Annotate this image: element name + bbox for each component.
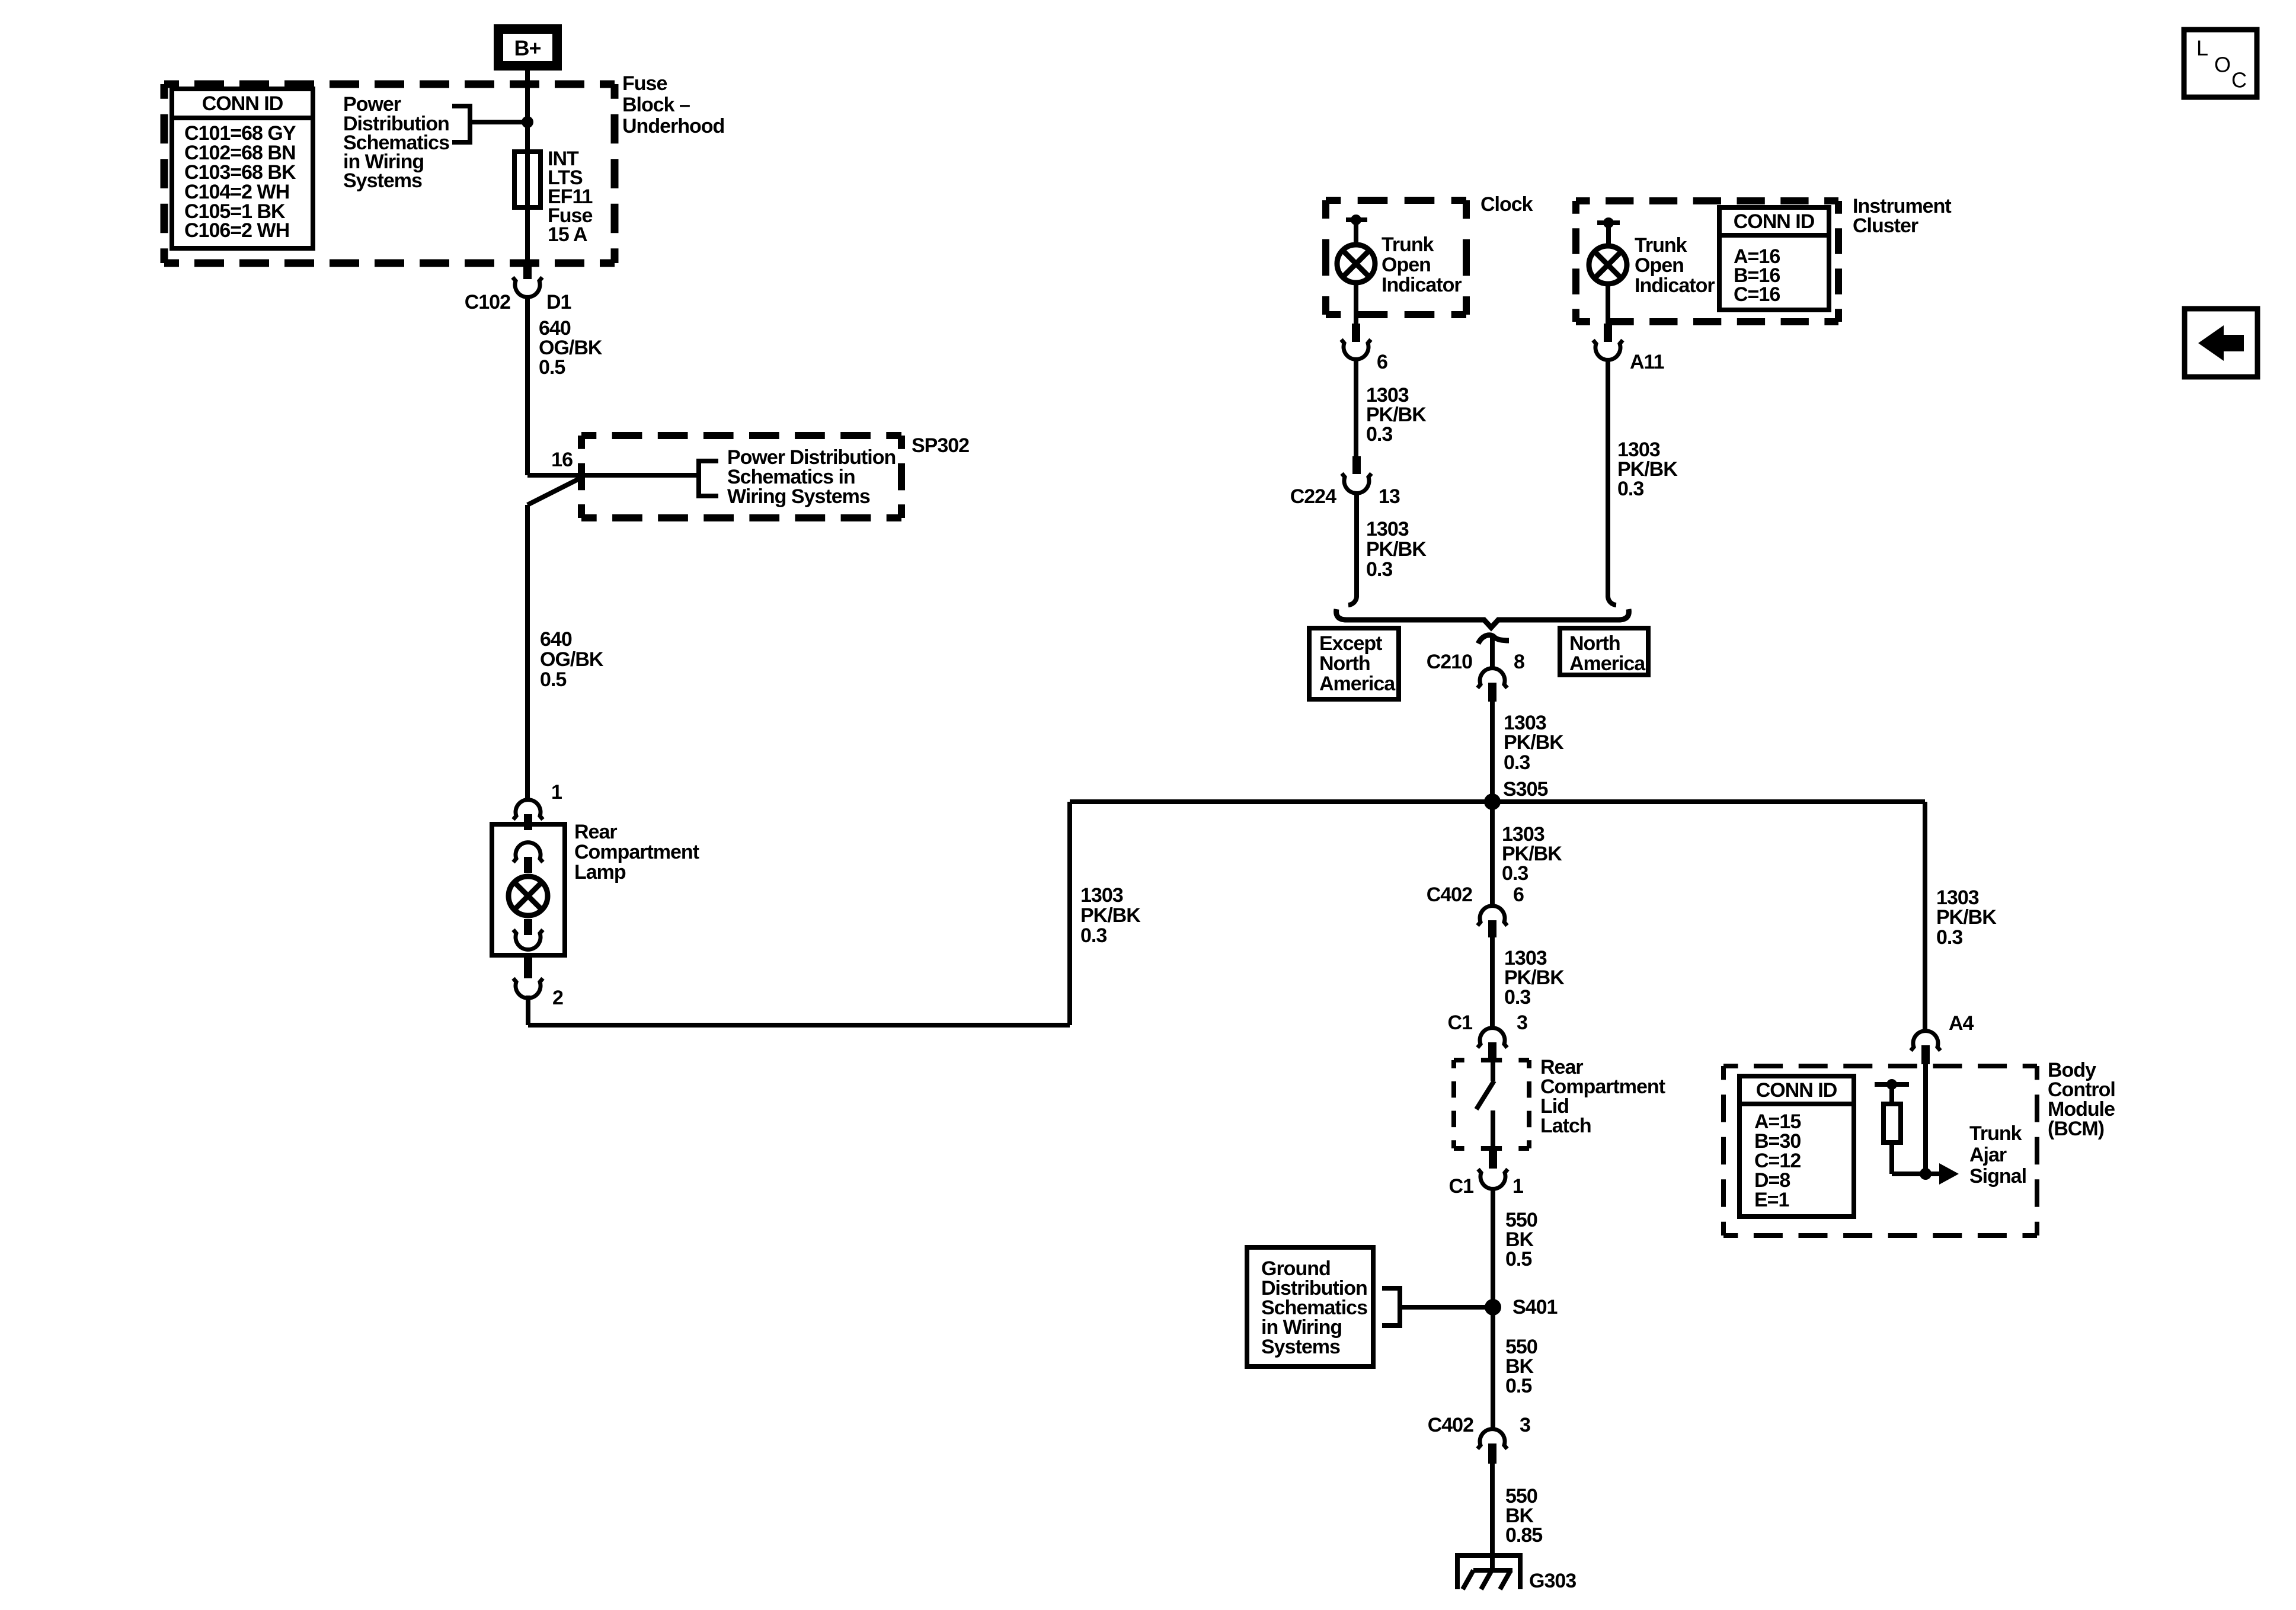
svg-text:Ajar: Ajar (1969, 1144, 2007, 1166)
svg-text:0.3: 0.3 (1504, 751, 1530, 774)
CONN ID table (fuse block) (172, 89, 313, 248)
junction node on B+ feed (522, 116, 533, 128)
splice S401 (1485, 1296, 1557, 1318)
trunk ajar signal node and arrow (1920, 1163, 1959, 1185)
svg-text:3: 3 (1520, 1414, 1530, 1436)
svg-text:0.85: 0.85 (1505, 1524, 1542, 1547)
trunk open indicator label (cluster) (1635, 234, 1715, 297)
LOC badge (2184, 30, 2257, 97)
fuse block - underhood dashed box (164, 84, 615, 263)
svg-text:Block –: Block – (622, 94, 690, 116)
connector C402 pin 3 (1428, 1414, 1530, 1464)
svg-text:Rear: Rear (574, 821, 617, 843)
svg-text:CONN ID: CONN ID (1734, 210, 1815, 233)
wire label 1303 PK/BK 0.3 (clock) (1366, 384, 1427, 446)
svg-text:Clock: Clock (1480, 193, 1533, 216)
trunk open indicator bulb (cluster) (1589, 246, 1627, 284)
svg-text:America: America (1569, 652, 1646, 675)
svg-text:6: 6 (1513, 884, 1524, 906)
wire clock to C224 (1303 PK/BK) (1354, 358, 1358, 456)
svg-text:Systems: Systems (343, 169, 422, 192)
connector pin 1 of rear compartment lamp (513, 781, 562, 830)
svg-text:0.3: 0.3 (1366, 558, 1392, 581)
svg-text:North: North (1319, 652, 1370, 675)
bracket to SP302 note (699, 461, 718, 496)
svg-text:C402: C402 (1427, 884, 1472, 906)
svg-text:1303: 1303 (1366, 518, 1409, 540)
trunk open indicator label (clock) (1382, 233, 1462, 296)
latch switch (1476, 1060, 1494, 1148)
clock label (1480, 193, 1533, 216)
svg-text:Underhood: Underhood (622, 115, 724, 137)
svg-text:(BCM): (BCM) (2048, 1118, 2104, 1140)
rear compartment lid latch dashed box (1454, 1060, 1529, 1148)
svg-text:PK/BK: PK/BK (1366, 538, 1427, 561)
svg-text:8: 8 (1514, 651, 1524, 673)
svg-text:0.5: 0.5 (540, 668, 566, 691)
wire label 640 OG/BK 0.5 (lower) (540, 628, 604, 691)
connector C224 pin 13 (1290, 456, 1400, 508)
wire label 550 BK 0.85 (1505, 1485, 1542, 1547)
wire 640 OG/BK lower segment (525, 505, 530, 800)
svg-text:B+: B+ (514, 36, 541, 60)
connector C102 pin D1 (465, 263, 571, 313)
wire label 550 BK 0.5 (below S401) (1505, 1336, 1537, 1397)
lamp bulb (509, 876, 548, 916)
svg-text:C1: C1 (1448, 1012, 1473, 1034)
svg-text:15 A: 15 A (548, 223, 587, 246)
svg-text:0.5: 0.5 (1505, 1375, 1531, 1397)
svg-text:G303: G303 (1529, 1570, 1576, 1592)
north america box (1560, 628, 1648, 675)
instrument cluster dashed box (1576, 201, 1838, 322)
svg-text:Cluster: Cluster (1853, 215, 1918, 237)
svg-text:C210: C210 (1427, 651, 1472, 673)
rear compartment lamp box (492, 824, 565, 955)
rear compartment lid latch label (1540, 1056, 1665, 1137)
connector pin 2 of rear compartment lamp (513, 955, 563, 1009)
power distribution schematics note (fuse block) (343, 93, 449, 192)
wire diagonal at SP302 (527, 478, 581, 505)
svg-text:CONN ID: CONN ID (1756, 1079, 1837, 1102)
wire label 1303 PK/BK 0.3 (right branch) (1936, 886, 1997, 949)
svg-text:Fuse: Fuse (622, 72, 667, 95)
svg-text:1303: 1303 (1080, 884, 1123, 907)
except north america box (1309, 628, 1399, 699)
wire bulb to clock pin 6 (1354, 283, 1358, 324)
svg-text:2: 2 (552, 987, 563, 1009)
option merge brace (1336, 609, 1629, 628)
fuse INT LTS EF11 15A (514, 152, 541, 263)
connector C402 pin 6 (1427, 884, 1524, 937)
clock dashed box (1326, 200, 1466, 315)
svg-text:Indicator: Indicator (1382, 274, 1462, 296)
splice SP302 dashed box (581, 436, 901, 518)
svg-text:North: North (1569, 632, 1620, 655)
svg-text:C: C (2231, 68, 2247, 92)
wire label 550 BK 0.5 (above S401) (1505, 1209, 1537, 1270)
svg-text:Indicator: Indicator (1635, 274, 1715, 297)
svg-text:Lamp: Lamp (574, 861, 626, 884)
trunk open indicator bulb (clock) (1337, 245, 1375, 283)
wire S305 to C402 pin 6 (1490, 802, 1495, 906)
body control module label (2048, 1059, 2115, 1140)
svg-text:Trunk: Trunk (1969, 1122, 2022, 1145)
svg-text:OG/BK: OG/BK (540, 648, 604, 671)
svg-text:PK/BK: PK/BK (1080, 904, 1141, 927)
pin 16 label at SP302 (551, 449, 573, 471)
svg-text:640: 640 (540, 628, 572, 651)
lamp internal bottom terminal (513, 919, 543, 949)
svg-text:America: America (1319, 673, 1396, 695)
trunk ajar signal label (1969, 1122, 2026, 1188)
svg-text:13: 13 (1379, 485, 1400, 508)
fuse block label (622, 72, 724, 137)
wire C210 to S305 (1490, 702, 1495, 802)
svg-text:Open: Open (1635, 254, 1684, 277)
rear compartment lamp label (574, 821, 699, 884)
svg-text:O: O (2214, 53, 2231, 77)
svg-text:Trunk: Trunk (1382, 233, 1434, 256)
wire C402 to C1 (1303 PK/BK) (1490, 937, 1495, 1028)
svg-text:Except: Except (1319, 632, 1382, 655)
svg-text:C=16: C=16 (1734, 283, 1780, 306)
svg-text:Open: Open (1382, 254, 1431, 276)
wire label 1303 PK/BK 0.3 (left branch) (1080, 884, 1141, 947)
wire bulb to cluster pin A11 (1606, 284, 1610, 324)
svg-text:C224: C224 (1290, 485, 1336, 508)
cluster internal supply tap (1597, 217, 1620, 247)
svg-text:1: 1 (551, 781, 562, 804)
wire label 1303 PK/BK 0.3 (below S305) (1502, 823, 1562, 885)
svg-text:C402: C402 (1428, 1414, 1473, 1436)
CONN ID table (BCM) (1739, 1076, 1854, 1217)
svg-text:0.3: 0.3 (1504, 986, 1530, 1009)
svg-text:E=1: E=1 (1754, 1189, 1789, 1211)
wire A4 into BCM (1923, 1064, 1928, 1174)
power symbol B+ (battery feed) (498, 29, 557, 66)
wire S305 to BCM pin A4 (1923, 802, 1927, 1031)
wire B+ to fuse (525, 71, 530, 154)
svg-text:PK/BK: PK/BK (1936, 906, 1997, 929)
svg-text:Compartment: Compartment (574, 841, 699, 863)
connector pin 6 (clock) (1341, 324, 1387, 373)
power distribution schematics note (SP302) (727, 446, 896, 508)
svg-text:Trunk: Trunk (1635, 234, 1687, 257)
connector pin A11 (cluster) (1593, 324, 1664, 373)
svg-text:3: 3 (1517, 1012, 1527, 1034)
connector pin A4 (BCM) (1911, 1012, 1974, 1064)
wire label 1303 PK/BK 0.3 (cluster) (1617, 438, 1678, 500)
svg-text:L: L (2196, 36, 2208, 60)
connector C1 pin 3 (latch) (1448, 1012, 1527, 1060)
svg-text:SP302: SP302 (912, 434, 969, 457)
wire label 1303 PK/BK 0.3 (above latch) (1504, 947, 1565, 1009)
ground G303 (1455, 1555, 1576, 1592)
svg-text:C102: C102 (465, 291, 510, 313)
svg-text:0.3: 0.3 (1080, 924, 1107, 947)
svg-text:Signal: Signal (1969, 1165, 2026, 1188)
wire label 1303 PK/BK 0.3 (above S305) (1504, 712, 1564, 774)
connector C1 pin 1 (latch) (1449, 1148, 1523, 1198)
svg-text:0.3: 0.3 (1502, 862, 1528, 885)
svg-text:CONN ID: CONN ID (202, 92, 283, 115)
wire lamp to riser (1303 PK/BK) (528, 802, 1070, 1025)
svg-text:0.3: 0.3 (1936, 926, 1962, 949)
svg-text:Wiring Systems: Wiring Systems (727, 485, 870, 508)
svg-text:PK/BK: PK/BK (1504, 731, 1564, 754)
svg-text:0.5: 0.5 (539, 356, 565, 379)
back arrow badge (2185, 309, 2257, 377)
body control module dashed box (1723, 1066, 2037, 1235)
connector C210 pin 8 (1427, 635, 1524, 702)
svg-text:Latch: Latch (1540, 1115, 1591, 1137)
lamp internal top terminal (513, 843, 543, 873)
wire label 640 OG/BK 0.5 (upper) (539, 317, 603, 379)
svg-text:16: 16 (551, 449, 573, 471)
wire cluster to option brace (1303 PK/BK) (1608, 359, 1616, 605)
svg-text:C1: C1 (1449, 1175, 1474, 1198)
wire C402 to ground (550 BK) (1490, 1464, 1495, 1569)
wire 640 OG/BK upper segment (525, 296, 530, 475)
splice SP302 tap wire (527, 473, 699, 478)
SP302 designator (912, 434, 969, 457)
ground distribution note box (1247, 1247, 1373, 1366)
svg-text:A11: A11 (1630, 351, 1664, 373)
CONN ID table (instrument cluster) (1719, 207, 1829, 310)
wire C224 to option brace (1348, 493, 1357, 605)
svg-text:S305: S305 (1503, 778, 1547, 801)
splice S305 (1070, 778, 1925, 810)
fuse label (548, 148, 592, 246)
svg-text:S401: S401 (1512, 1296, 1557, 1318)
wire label 1303 PK/BK 0.3 (below C224) (1366, 518, 1427, 581)
bracket from note to wire (452, 106, 527, 142)
clock internal supply tap (1346, 215, 1367, 245)
svg-text:A4: A4 (1949, 1012, 1974, 1035)
bracket ground note to S401 (1382, 1288, 1493, 1326)
svg-text:1: 1 (1512, 1175, 1523, 1198)
svg-text:0.3: 0.3 (1617, 478, 1643, 500)
pull-up resistor (BCM) (1875, 1079, 1926, 1174)
svg-text:C106=2 WH: C106=2 WH (184, 219, 289, 242)
svg-text:0.3: 0.3 (1366, 423, 1392, 446)
svg-text:Systems: Systems (1261, 1336, 1340, 1358)
svg-text:6: 6 (1377, 351, 1387, 373)
svg-text:D1: D1 (546, 291, 571, 313)
svg-text:0.5: 0.5 (1505, 1248, 1531, 1270)
instrument cluster label (1853, 195, 1951, 237)
wire latch to S401 (550 BK) (1491, 1189, 1495, 1429)
